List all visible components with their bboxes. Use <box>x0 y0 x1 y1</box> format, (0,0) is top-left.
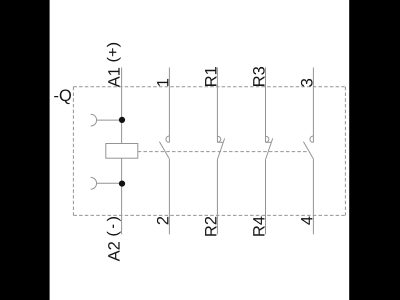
terminal label R4 <box>253 216 264 235</box>
wire terminal R3-R4 top segment <box>265 68 267 143</box>
terminal label 1 <box>157 79 168 86</box>
socket contact arc at A2 branch <box>91 177 97 189</box>
wire from socket to node A2 <box>97 182 122 184</box>
white drawing area <box>50 0 350 300</box>
NO contact 1-2: fixed contact arc <box>166 136 169 142</box>
junction node on A2 line <box>119 181 125 187</box>
wire terminal R1-R2 bottom segment <box>216 160 218 234</box>
wire A1-A2 coil path (vertical) <box>121 68 123 235</box>
label -Q <box>54 89 71 104</box>
terminal label A1 (+) <box>107 43 121 87</box>
NC contact R1-R2: fixed contact arc <box>217 136 220 142</box>
NO contact 1-2: moving contact arm <box>159 142 169 159</box>
mechanical linkage dashed line <box>138 151 308 153</box>
terminal label A2 (-) <box>107 217 121 261</box>
terminal label R3 <box>253 67 265 86</box>
wire terminal R1-R2 top segment <box>216 68 218 143</box>
NC contact R3-R4: fixed terminal tick <box>266 141 272 143</box>
wire terminal 3-4 bottom segment <box>312 158 314 234</box>
terminal label R1 <box>205 67 216 86</box>
NC contact R1-R2: fixed terminal tick <box>217 141 223 143</box>
NO contact 3-4: moving contact arm <box>303 142 313 159</box>
terminal label 4 <box>301 216 312 224</box>
NC contact R1-R2: moving contact arm <box>217 138 224 160</box>
terminal label 2 <box>157 217 169 225</box>
socket contact arc at A1 branch <box>91 114 97 126</box>
terminal label 3 <box>301 79 313 87</box>
dashed enclosure box of contactor -Q <box>73 87 345 216</box>
wire terminal R3-R4 bottom segment <box>265 160 267 234</box>
junction node on A1 line <box>119 117 125 123</box>
NC contact R3-R4: fixed contact arc <box>266 136 269 142</box>
wire terminal 1-2 top segment <box>168 68 170 143</box>
wire terminal 1-2 bottom segment <box>168 158 170 234</box>
wire from socket to node A1 <box>97 119 122 121</box>
NO contact 3-4: fixed contact arc <box>310 136 313 142</box>
wire terminal 3-4 top segment <box>312 68 314 143</box>
coil K (operating coil rectangle) <box>106 144 138 159</box>
NC contact R3-R4: moving contact arm <box>265 138 272 160</box>
terminal label R2 <box>205 217 217 236</box>
